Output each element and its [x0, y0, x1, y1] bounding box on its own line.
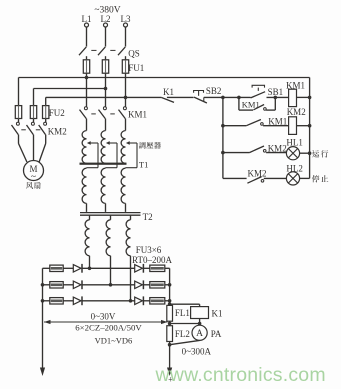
wire positive bus (right)	[169, 268, 171, 305]
node parallel-left	[237, 96, 241, 100]
node secondary drop row3	[129, 299, 133, 303]
svg-text:KM1: KM1	[268, 117, 287, 127]
fuse FU3 left row1	[50, 265, 63, 271]
svg-text:KM2: KM2	[268, 143, 287, 153]
fuse FU3 left row2	[50, 282, 63, 288]
svg-text:QS: QS	[128, 48, 140, 58]
contactor KM1 main contacts	[84, 107, 87, 110]
wire drops to FU2	[18, 78, 20, 106]
contactor KM2 main contacts	[18, 119, 20, 123]
svg-text:PA: PA	[211, 329, 222, 339]
wire negative bus (left)	[42, 268, 44, 368]
fuse FU3 right row1	[150, 265, 165, 271]
shunt FL2	[167, 326, 173, 342]
transformer T2 primary coils	[82, 168, 86, 203]
node HL1 / right bus	[308, 151, 312, 155]
svg-text:RT0–200A: RT0–200A	[132, 255, 172, 265]
T1 star bar	[80, 163, 127, 165]
wire K1 to lower tap	[199, 319, 201, 326]
svg-text:FU1: FU1	[128, 63, 144, 73]
svg-text:KM1: KM1	[242, 100, 260, 110]
wire to fan motor	[18, 135, 20, 144]
relay K1 coil	[191, 307, 209, 319]
wire PA return	[170, 340, 200, 344]
T1 wiper arrows	[87, 141, 91, 145]
wire branch line 1 (phase A tap to FU2 and control return bus)	[19, 77, 310, 79]
svg-text:KM1: KM1	[128, 110, 147, 120]
motor M fan	[24, 161, 44, 181]
svg-text:T1: T1	[139, 159, 148, 169]
wire branch line 3 / control supply row	[46, 96, 162, 98]
wire secondary drops to rectifier	[89, 256, 91, 268]
label fan (CJK)	[26, 182, 33, 189]
svg-text:A: A	[196, 329, 203, 339]
svg-text:HL1: HL1	[286, 138, 303, 148]
wire rectifier row3	[43, 300, 50, 302]
node after SB2	[221, 96, 225, 100]
fuse FU3 right row3	[150, 298, 165, 304]
diode VD left row3	[73, 297, 81, 304]
node phase B / line2	[104, 87, 108, 91]
svg-text:K1: K1	[212, 309, 223, 319]
switch QS	[79, 47, 86, 55]
svg-text:L2: L2	[101, 14, 111, 24]
wire phase drops to QS	[86, 27, 88, 47]
wire tap to relay K1	[168, 302, 172, 306]
wire rectifier row2	[43, 284, 50, 286]
svg-text:SB1: SB1	[268, 87, 284, 97]
svg-text:VD1~VD6: VD1~VD6	[95, 336, 133, 346]
svg-text:0~300A: 0~300A	[182, 346, 212, 356]
fuse FU1	[83, 60, 89, 73]
node coil KM2 / right bus	[308, 124, 312, 128]
svg-text:K1: K1	[163, 87, 174, 97]
node secondary drop row1	[88, 267, 92, 271]
label run (CJK)	[312, 150, 319, 157]
contact KM2 aux (row 3)	[223, 152, 250, 154]
positive output arrow	[167, 368, 172, 377]
diode VD right row2	[135, 281, 143, 288]
contact KM1 aux (row 2)	[223, 125, 246, 127]
diode VD right row1	[135, 265, 143, 272]
wire control left bus	[222, 97, 224, 178]
svg-text:6×2CZ–200A/50V: 6×2CZ–200A/50V	[75, 323, 142, 333]
diode VD left row2	[73, 281, 81, 288]
svg-text:FU3×6: FU3×6	[136, 245, 162, 255]
ammeter PA	[192, 325, 207, 340]
transformer T2 secondary coils	[89, 216, 91, 220]
svg-text:FL2: FL2	[175, 329, 190, 339]
label 调压器 (CJK)	[139, 142, 146, 149]
transformer T2 core	[80, 212, 141, 214]
svg-text:SB2: SB2	[206, 86, 222, 96]
wire phase verticals below FU1	[86, 73, 88, 106]
diode VD left row1	[73, 265, 81, 272]
pushbutton SB2 (NC stop)	[194, 91, 204, 93]
wire control right bus	[309, 78, 311, 179]
node phase C / line3	[124, 96, 128, 100]
fuse FU3 right row2	[150, 282, 165, 288]
svg-text:T2: T2	[143, 212, 153, 222]
shunt FL1	[167, 305, 173, 321]
node coil KM1 / right bus	[308, 96, 312, 100]
wire branch line 2	[34, 88, 106, 90]
node phase A / line1	[85, 76, 89, 80]
svg-text:L3: L3	[121, 14, 131, 24]
contact KM1 holding (parallel with SB1)	[238, 97, 240, 110]
svg-text:KM2: KM2	[248, 169, 267, 179]
pushbutton SB1 (NO start)	[251, 92, 266, 98]
label stop (CJK)	[312, 175, 320, 182]
fuse FU3 left row3	[50, 298, 63, 304]
svg-text:KM2: KM2	[287, 107, 306, 117]
svg-text:FL1: FL1	[175, 308, 190, 318]
svg-text:0~30V: 0~30V	[91, 312, 116, 322]
node secondary drop row2	[109, 283, 113, 287]
dimension 0~30V	[44, 321, 168, 323]
autotransformer T1 (voltage regulator) coils	[82, 131, 86, 164]
node parallel-right	[274, 96, 278, 100]
fuse FU2	[15, 106, 21, 119]
svg-text:L1: L1	[82, 14, 92, 24]
svg-text:KM2: KM2	[48, 126, 67, 136]
svg-text:www.cntronics.com: www.cntronics.com	[155, 364, 326, 386]
svg-text:FU2: FU2	[49, 108, 65, 118]
svg-text:~: ~	[31, 173, 36, 183]
diode VD right row3	[135, 297, 143, 304]
wire rectifier row1	[43, 267, 50, 269]
negative output arrow	[40, 368, 45, 377]
wire to T1	[86, 119, 88, 131]
contact KM2 aux (row 4)	[223, 177, 247, 179]
